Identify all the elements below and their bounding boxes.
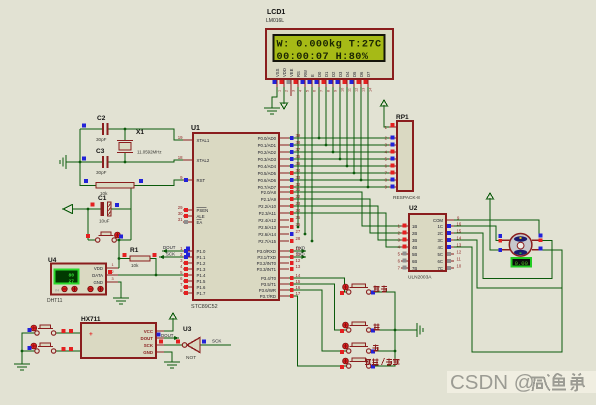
wire U2 2C loop to motor right pin b (454, 233, 552, 279)
svg-text:3: 3 (292, 90, 296, 92)
U1 pin 7 P1.6 (183, 286, 193, 288)
svg-text:LM016L: LM016L (266, 18, 284, 24)
wire C1 right to rail (111, 208, 131, 210)
svg-text:38: 38 (296, 140, 301, 145)
U2 pin 15 2C (446, 232, 454, 234)
svg-text:D6: D6 (359, 71, 364, 77)
svg-text:DOUT: DOUT (161, 333, 174, 338)
U1 pin 21 P2.0/A8 (279, 191, 289, 193)
svg-text:P0.5/AD5: P0.5/AD5 (258, 171, 277, 176)
svg-text:3: 3 (112, 277, 114, 281)
svg-text:ALE: ALE (197, 214, 205, 219)
svg-text:13: 13 (362, 88, 366, 92)
push button RESET (96, 238, 100, 242)
U2 pin 7 7B (401, 267, 409, 269)
svg-text:rH: rH (55, 288, 59, 293)
wire U4 VDD to rail (118, 267, 119, 269)
U2 pin 6 6B (401, 260, 409, 262)
wire P2.2 to U2 3B (289, 206, 401, 240)
button SET label (she zhi) (374, 286, 380, 292)
svg-text:39: 39 (296, 133, 301, 138)
svg-text:GND: GND (143, 350, 153, 355)
U2 pin 5 5B (401, 253, 409, 255)
wire P0.4 to RP1 pin 6 (289, 165, 389, 167)
svg-text:1: 1 (278, 90, 282, 92)
net label DOUT arrow HX711 (164, 337, 179, 339)
U2 pin 4 4B (401, 246, 409, 248)
svg-text:P0.0/AD0: P0.0/AD0 (258, 136, 277, 141)
wire R1 right to DATA (150, 259, 156, 276)
U1 pin 6 P1.5 (183, 280, 193, 282)
svg-text:SCK: SCK (166, 252, 175, 257)
svg-text:U3: U3 (183, 326, 192, 333)
svg-text:P1.3: P1.3 (197, 267, 206, 272)
svg-text:26: 26 (296, 222, 301, 227)
svg-text:7B: 7B (412, 266, 417, 271)
push button TARE (347, 364, 351, 368)
U1 pin 14 P3.4/T0 (279, 277, 289, 279)
push button MINUS (347, 349, 351, 353)
svg-text:24: 24 (296, 208, 301, 213)
U1 pin 22 P2.1/A9 (279, 198, 289, 200)
svg-text:P2.4/A12: P2.4/A12 (258, 218, 276, 223)
U1 pin 33 P0.6/AD6 (279, 179, 289, 181)
svg-text:10uF: 10uF (99, 219, 110, 224)
svg-text:D1: D1 (324, 71, 329, 77)
button PLUS label (jia) (374, 324, 380, 330)
svg-text:D7: D7 (366, 71, 371, 77)
svg-text:1C: 1C (438, 224, 444, 229)
RP1 pin 7 (389, 172, 397, 174)
svg-text:34: 34 (296, 168, 301, 173)
svg-text:10: 10 (341, 88, 345, 92)
svg-text:P3.3/INT1: P3.3/INT1 (257, 267, 277, 272)
HX711 pin SCK (156, 344, 164, 346)
svg-text:10: 10 (457, 264, 462, 269)
svg-text:12: 12 (296, 258, 301, 263)
U2 pin 11 6C (446, 260, 454, 262)
wire LCD D5 to P0.5 bus (353, 86, 355, 173)
svg-text:P0.1/AD1: P0.1/AD1 (258, 143, 277, 148)
svg-text:P3.1/TXD: P3.1/TXD (257, 255, 276, 260)
wire C2 right to XTAL1 (108, 129, 185, 140)
net arrow VCC left (63, 205, 73, 214)
svg-text:LCD1: LCD1 (267, 9, 285, 16)
svg-text:SCK: SCK (144, 343, 154, 348)
U1 pin 30 ALE (183, 215, 193, 217)
svg-text:SCK: SCK (212, 339, 222, 344)
wire P0.2 to RP1 pin 4 (289, 151, 389, 153)
U1 pin 15 P3.5/T1 (279, 283, 289, 285)
svg-text:3B: 3B (412, 238, 417, 243)
U1 pin 11 P3.1/TXD (279, 256, 289, 258)
push button SET (347, 290, 351, 294)
U2 pin 14 3C (446, 239, 454, 241)
wire C2 left to rail (80, 128, 103, 130)
wire LCD D7 to P0.7 bus (367, 86, 369, 187)
svg-text:12: 12 (355, 88, 359, 92)
U2 pin 16 1C (446, 225, 454, 227)
svg-text:P3.5/T1: P3.5/T1 (261, 282, 277, 287)
svg-text:11.0592MHz: 11.0592MHz (137, 150, 162, 155)
svg-text:13: 13 (296, 264, 301, 269)
wire reset button row (88, 239, 96, 241)
svg-text:PSEN: PSEN (197, 208, 209, 213)
U1 pin 9 RST (183, 179, 193, 181)
svg-text:9: 9 (334, 90, 338, 92)
power +5V LCD VDD (283, 86, 285, 96)
resistor pack RP1 body (397, 121, 413, 191)
wire C3 left to rail (80, 161, 103, 163)
U1 pin 35 P0.4/AD4 (279, 165, 289, 167)
svg-text:5C: 5C (438, 252, 444, 257)
ground crystal (60, 155, 66, 169)
svg-text:27: 27 (68, 279, 74, 285)
svg-text:RST: RST (197, 178, 206, 183)
svg-text:2B: 2B (412, 231, 417, 236)
svg-text:11: 11 (348, 88, 352, 92)
svg-text:28: 28 (296, 236, 301, 241)
svg-text:19: 19 (178, 135, 183, 140)
svg-text:P1.0: P1.0 (197, 249, 206, 254)
ground buttons right (417, 323, 423, 337)
U4 pin 2 DATA (106, 274, 118, 276)
U1 pin 19 XTAL1 (183, 139, 193, 141)
svg-text:D4: D4 (345, 71, 350, 77)
wire DHT11 DATA to P1.4 (118, 274, 184, 276)
svg-text:P2.3/A11: P2.3/A11 (259, 211, 277, 216)
svg-text:VDD: VDD (94, 266, 103, 271)
svg-text:11: 11 (457, 257, 462, 262)
button TARE label (qu pi / qing ling) (365, 359, 371, 365)
U4 pin 3 GND (106, 281, 118, 283)
svg-text:GND: GND (93, 280, 103, 285)
svg-text:P0.4/AD4: P0.4/AD4 (258, 164, 277, 169)
net label SCK arrow P1.1 (159, 256, 184, 258)
U1 pin 23 P2.2/A10 (279, 205, 289, 207)
svg-text:4C: 4C (438, 245, 444, 250)
wire HX711 GND to ground (164, 352, 172, 362)
wire P3.5 to button PLUS (289, 284, 346, 330)
wire LCD VSS to ground (272, 86, 277, 108)
U1 pin 37 P0.2/AD2 (279, 151, 289, 153)
U1 pin 28 P2.7/A15 (279, 240, 289, 242)
svg-text:P1.6: P1.6 (197, 285, 206, 290)
wire C1 node down to reset button (87, 209, 89, 240)
ground loadcell (14, 364, 30, 370)
U4 pin 1 VDD (106, 267, 118, 269)
U1 pin 24 P2.3/A11 (279, 212, 289, 214)
svg-text:22: 22 (296, 194, 301, 199)
svg-text:DOUT: DOUT (141, 336, 154, 341)
U1 pin 38 P0.1/AD1 (279, 144, 289, 146)
U1 pin 16 P3.6/WR (279, 289, 289, 291)
svg-text:4B: 4B (412, 245, 417, 250)
U1 pin 29 PSEN (183, 209, 193, 211)
wire RST node down to C1 (130, 186, 132, 210)
svg-text:P2.7/A15: P2.7/A15 (258, 239, 276, 244)
svg-text:27: 27 (296, 229, 301, 234)
svg-text:X1: X1 (136, 129, 144, 136)
wire LCD RS to P2.5 (297, 86, 299, 227)
wire rail to ground left (66, 161, 80, 163)
push button PLUS (347, 328, 351, 332)
svg-text:14: 14 (369, 88, 373, 92)
U1 pin 32 P0.7/AD7 (279, 186, 289, 188)
RP1 pin 1 (389, 126, 397, 128)
wire loadcell button1 to HX711 (56, 332, 81, 334)
net label DOUT arrow P1.0 (162, 250, 184, 252)
U2 pin 1 1B (401, 225, 409, 227)
U2 pin 9 COM (446, 219, 454, 221)
svg-text:14: 14 (296, 273, 301, 278)
U1 pin 18 XTAL2 (183, 159, 193, 161)
HX711 pin DOUT (156, 337, 164, 339)
svg-text:P0.6/AD6: P0.6/AD6 (258, 178, 277, 183)
wire P3.7 to button TARE (289, 296, 346, 366)
wire P3.4 to button SET (289, 278, 346, 292)
svg-text:P1.5: P1.5 (197, 279, 206, 284)
svg-text:VDD: VDD (282, 68, 287, 77)
svg-text:+: + (89, 331, 93, 338)
RP1 pin 2 (389, 137, 397, 139)
svg-text:P3.4/T0: P3.4/T0 (261, 276, 277, 281)
svg-text:U1: U1 (191, 125, 200, 132)
svg-text:HX711: HX711 (81, 316, 101, 323)
svg-text:RP1: RP1 (396, 114, 409, 121)
wire P0.1 to RP1 pin 3 (289, 144, 389, 146)
svg-text:36: 36 (296, 154, 301, 159)
net label RXD arrow (289, 250, 306, 252)
ground HX711 (164, 362, 180, 368)
U1 pin 27 P2.6/A14 (279, 233, 289, 235)
driver U2 ULN2003A body (409, 214, 446, 271)
svg-text:16: 16 (457, 222, 462, 227)
svg-text:P3.2/INT0: P3.2/INT0 (257, 261, 277, 266)
wire RST resistor to RST pin (134, 180, 184, 186)
svg-text:P2.1/A9: P2.1/A9 (261, 197, 277, 202)
MCU U1 body (193, 133, 279, 300)
wire +5V down to R1 and DHT VDD (118, 240, 120, 268)
svg-text:15: 15 (296, 279, 301, 284)
svg-text:14: 14 (457, 236, 462, 241)
svg-text:6B: 6B (412, 259, 417, 264)
svg-text:XTAL2: XTAL2 (197, 158, 210, 163)
svg-text:15: 15 (457, 229, 462, 234)
HX711 pin VCC (156, 330, 164, 332)
U2 pin 2 2B (401, 232, 409, 234)
wire X1 bottom (124, 153, 126, 163)
svg-text:P2.6/A14: P2.6/A14 (258, 232, 276, 237)
wire U2 3C loop to motor right pin c (454, 240, 562, 288)
wire +5V to RP1 pin1 (384, 113, 389, 127)
wire HX711 SCK to U3 (164, 344, 182, 346)
LCD screen (274, 35, 385, 61)
wire buttons common rail (371, 292, 395, 366)
svg-text:80: 80 (68, 273, 74, 279)
svg-text:5B: 5B (412, 252, 417, 257)
U1 pin 13 P3.3/INT1 (279, 268, 289, 270)
motor pin stubs (502, 239, 510, 241)
svg-text:21: 21 (296, 187, 301, 192)
motor M1 stepper body (509, 234, 532, 257)
watermark glyph yu (552, 374, 566, 390)
svg-text:31: 31 (178, 217, 183, 222)
module HX711 body (81, 323, 156, 358)
svg-text:10k: 10k (131, 263, 139, 268)
wire C3 right to XTAL2 (108, 160, 185, 162)
svg-text:7C: 7C (438, 266, 444, 271)
power +5V HX711 (172, 318, 174, 326)
wire P0.3 to RP1 pin 5 (289, 158, 389, 160)
U1 pin 5 P1.4 (183, 274, 193, 276)
wire U2 COM to motor right pin a (454, 220, 539, 234)
svg-text:D5: D5 (352, 71, 357, 77)
svg-text:3C: 3C (438, 238, 444, 243)
U1 pin 8 P1.7 (183, 292, 193, 294)
U1 pin 25 P2.4/A12 (279, 219, 289, 221)
svg-text:P1.4: P1.4 (197, 273, 206, 278)
svg-text:35: 35 (296, 161, 301, 166)
svg-text:P0.3/AD3: P0.3/AD3 (258, 157, 277, 162)
svg-text:5: 5 (306, 90, 310, 92)
net label DOUT (HX711 side) (157, 333, 161, 337)
wire P3.6 to button MINUS (289, 290, 346, 351)
wire LCD E to P2.7 (311, 86, 313, 241)
wire P0.5 to RP1 pin 7 (289, 172, 389, 174)
U2 pin 3 3B (401, 239, 409, 241)
svg-text:0.00: 0.00 (515, 260, 529, 267)
DHT11 screen (55, 270, 79, 284)
wire rail x131 down (130, 209, 132, 240)
RP1 pin 4 (389, 151, 397, 153)
U1 pin 3 P1.2 (183, 262, 193, 264)
svg-text:P1.7: P1.7 (197, 291, 206, 296)
svg-text:18: 18 (178, 155, 183, 160)
resistor R2 (RST pulldown 10k) (96, 183, 134, 189)
RP1 pin 3 (389, 144, 397, 146)
wire U3 input SCK net (200, 344, 231, 346)
svg-text:C2: C2 (97, 115, 106, 122)
svg-text:CSDN @: CSDN @ (450, 371, 535, 394)
U1 pin 26 P2.5/A13 (279, 226, 289, 228)
svg-text:C1: C1 (98, 195, 107, 202)
svg-text:COM: COM (433, 218, 443, 223)
svg-text:8: 8 (327, 90, 331, 92)
wire LCD D4 to P0.4 bus (346, 86, 348, 166)
wire P2.1 to U2 2B (289, 199, 401, 233)
svg-text:2: 2 (112, 270, 114, 274)
svg-text:2C: 2C (438, 231, 444, 236)
svg-text:P1.1: P1.1 (197, 255, 206, 260)
svg-text:00:00:07 H:80%: 00:00:07 H:80% (277, 52, 369, 63)
wire LCD D3 to P0.3 bus (339, 86, 341, 159)
gate U3 NOT inverter (187, 338, 200, 353)
U1 pin 2 P1.1 (183, 256, 193, 258)
ground LCD VSS (264, 108, 280, 114)
U1 pin 31 EA (183, 221, 193, 223)
svg-text:R1: R1 (130, 247, 139, 254)
svg-text:16: 16 (296, 285, 301, 290)
RP1 pin 5 (389, 158, 397, 160)
RP1 pin 9 (389, 186, 397, 188)
svg-text:C3: C3 (96, 148, 105, 155)
U1 pin 34 P0.5/AD5 (279, 172, 289, 174)
svg-text:D0: D0 (317, 71, 322, 77)
svg-text:XTAL1: XTAL1 (197, 138, 210, 143)
svg-text:P2.0/A8: P2.0/A8 (261, 190, 277, 195)
wire +5V to motor left pin c (490, 206, 502, 250)
svg-text:W: 0.000kg T:27C: W: 0.000kg T:27C (277, 39, 382, 51)
wire LCD RW to P2.6 (304, 86, 306, 234)
svg-text:30pF: 30pF (96, 170, 107, 175)
svg-text:NOT: NOT (186, 355, 196, 361)
wire X1 top (124, 129, 126, 141)
wire U4 GND to ground (118, 282, 121, 298)
U1 pin 39 P0.0/AD0 (279, 137, 289, 139)
svg-text:EA: EA (197, 220, 203, 225)
wire P0.7 to RP1 pin 9 (289, 186, 389, 188)
wire loadcell buttons left rail (22, 333, 35, 364)
svg-text:29: 29 (178, 205, 183, 210)
svg-text:DHT11: DHT11 (47, 298, 63, 304)
svg-text:30: 30 (178, 211, 183, 216)
power +5V motor (489, 198, 491, 206)
svg-text:STC89C52: STC89C52 (191, 304, 218, 310)
svg-text:P3.7/RD: P3.7/RD (260, 294, 276, 299)
svg-text:P3.0/RXD: P3.0/RXD (257, 249, 276, 254)
wire rail down to RST resistor (80, 162, 96, 186)
U2 pin 10 7C (446, 267, 454, 269)
svg-text:U2: U2 (409, 205, 418, 212)
svg-text:ULN2003A: ULN2003A (408, 275, 432, 281)
motor state squares (498, 234, 502, 238)
svg-text:RW: RW (303, 70, 308, 77)
watermark glyph di (571, 374, 585, 392)
svg-text:25: 25 (296, 215, 301, 220)
U1 pin 1 P1.0 (183, 250, 193, 252)
svg-text:RESPACK-8: RESPACK-8 (393, 195, 420, 201)
U1 pin 4 P1.3 (183, 268, 193, 270)
U1 pin 17 P3.7/RD (279, 295, 289, 297)
svg-text:37: 37 (296, 147, 301, 152)
sensor U4 DHT11 body (51, 264, 106, 295)
wire HX711 VCC to power (164, 326, 173, 331)
svg-text:RXD: RXD (296, 246, 305, 251)
wire LCD D6 to P0.6 bus (360, 86, 362, 180)
U1 pin 12 P3.2/INT0 (279, 262, 289, 264)
wire U2 1C to motor left pin b (454, 226, 502, 240)
power +5V RP1 (383, 105, 385, 113)
motor display (512, 258, 532, 267)
svg-text:1: 1 (112, 263, 114, 267)
svg-text:23: 23 (296, 201, 301, 206)
wire U2 4C lower loop (454, 247, 562, 352)
svg-text:TXD: TXD (296, 252, 305, 257)
wire LCD D2 to P0.2 bus (332, 86, 334, 152)
wire LCD D1 to P0.1 bus (325, 86, 327, 145)
svg-text:DOUT: DOUT (163, 245, 176, 250)
U1 pin 10 P3.0/RXD (279, 250, 289, 252)
net label TXD arrow (289, 256, 306, 258)
svg-text:D2: D2 (331, 71, 336, 77)
ground U4 (113, 298, 129, 304)
svg-text:1B: 1B (412, 224, 417, 229)
svg-text:E: E (310, 74, 315, 77)
wire crystal ground rail (79, 129, 81, 162)
svg-text:RS: RS (296, 71, 301, 77)
svg-text:2: 2 (285, 90, 289, 92)
